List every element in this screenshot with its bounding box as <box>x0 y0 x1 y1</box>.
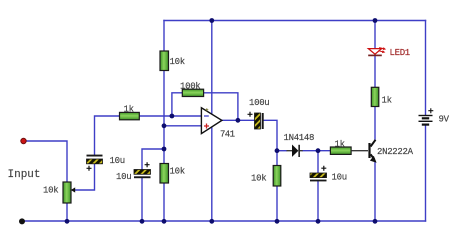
svg-text:Input: Input <box>8 169 41 181</box>
wire divider bottom to rail <box>163 183 165 221</box>
wire C1 top to R2 <box>95 116 120 155</box>
input terminal black <box>19 218 25 224</box>
wire pot wiper to C1 <box>75 164 95 190</box>
resistor R7 1k base <box>330 139 351 154</box>
wire bottom rail <box>22 220 426 222</box>
svg-text:741: 741 <box>220 130 235 140</box>
resistor R4 10k divider lower <box>160 164 185 184</box>
capacitor C2 10u <box>116 162 151 182</box>
wire divider column <box>163 71 165 164</box>
svg-text:10k: 10k <box>170 57 185 67</box>
svg-text:1N4148: 1N4148 <box>284 133 315 143</box>
svg-text:10k: 10k <box>43 186 58 196</box>
wire diode node down to R6 <box>276 151 278 166</box>
svg-text:10u: 10u <box>110 156 125 166</box>
wire top rail <box>164 20 426 22</box>
resistor R1 10k top <box>160 51 185 71</box>
wire battery bottom <box>425 126 427 221</box>
wire C5 branch <box>317 151 319 173</box>
svg-text:1k: 1k <box>382 95 392 105</box>
battery B1 9V <box>419 108 450 124</box>
capacitor C5 10u <box>310 166 347 183</box>
svg-text:10k: 10k <box>170 167 185 177</box>
wire C4 to diode node <box>264 120 277 150</box>
svg-text:100k: 100k <box>180 81 200 91</box>
wire input top <box>24 141 68 182</box>
wire feedback left <box>172 93 182 116</box>
wire battery top <box>425 21 427 115</box>
wire op-amp noninverting input <box>164 125 202 127</box>
wire feedback right <box>204 93 238 121</box>
node junction dots <box>65 18 378 224</box>
svg-text:LED1: LED1 <box>390 48 410 58</box>
svg-text:10u: 10u <box>332 173 347 183</box>
transistor Q1 2N2222A <box>351 140 413 163</box>
op-amp U1 741 <box>201 108 234 140</box>
resistor R6 10k below diode <box>251 166 281 187</box>
wire op-amp output <box>222 119 255 121</box>
wire R2 to inverting input <box>139 115 201 117</box>
wire emitter to rail <box>374 162 376 222</box>
wire pot bottom <box>66 203 68 221</box>
resistor R8 1k LED <box>371 87 391 106</box>
svg-text:10u: 10u <box>116 172 131 182</box>
svg-text:2N2222A: 2N2222A <box>377 147 414 157</box>
wire LED to R8 <box>374 56 376 87</box>
wire cap C2 to rail <box>141 178 143 221</box>
wire top-left drop to R1 <box>163 21 165 52</box>
svg-text:1k: 1k <box>335 139 345 149</box>
svg-text:9V: 9V <box>439 115 450 125</box>
potentiometer VR1 10k <box>43 182 75 203</box>
wire diode anode <box>277 150 287 152</box>
resistor R3 100k feedback <box>180 81 204 96</box>
wire diode cathode to node <box>303 150 331 152</box>
wire op-amp power pins <box>211 21 213 222</box>
diode D1 1N4148 <box>284 133 315 157</box>
wire collector column <box>374 107 376 141</box>
wire R6 to rail <box>276 186 278 221</box>
svg-text:1k: 1k <box>124 104 134 114</box>
LED1 <box>368 46 410 58</box>
wire cap C2 branch <box>142 149 164 170</box>
capacitor C4 100u <box>248 98 270 129</box>
wire LED column <box>374 21 376 49</box>
wire C5 to rail <box>317 181 319 221</box>
resistor R2 1k <box>120 104 140 120</box>
svg-text:10k: 10k <box>251 174 266 184</box>
capacitor C1 10u <box>87 155 125 171</box>
svg-text:100u: 100u <box>249 98 269 108</box>
input terminal red <box>21 138 26 143</box>
